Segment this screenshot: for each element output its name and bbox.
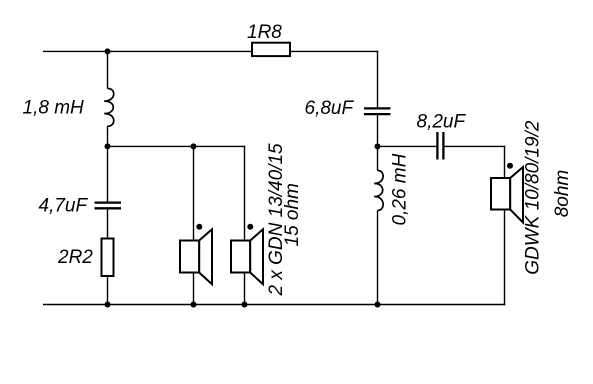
svg-text:0,26 mH: 0,26 mH: [390, 153, 411, 225]
speaker GDWK polarity dot: [507, 163, 513, 169]
wire from capacitor 6,8uF down to node at y=146.4: [377, 114, 379, 170]
speaker GDN #2 magnet box: [231, 241, 250, 273]
capacitor 8,2uF plates: [437, 132, 443, 160]
junction dot at 377.5,304.5: [375, 302, 381, 308]
junction dot at 193.5,146.4: [191, 143, 197, 149]
speaker GDN #1 cone: [199, 229, 212, 284]
wire from inductor 1,8 mH down to node 107.5,146.4: [107, 126, 109, 202]
svg-text:6,8uF: 6,8uF: [305, 98, 355, 119]
resistor 2R2 body: [102, 239, 114, 277]
wire top input from left to resistor 1R8: [43, 50, 252, 52]
junction dot at 107.5,304.5: [105, 302, 111, 308]
junction dot at 193.5,304.5: [191, 302, 197, 308]
capacitor 4,7uF plates: [95, 203, 122, 209]
speaker GDN #2 polarity dot: [247, 224, 253, 230]
wire bottom return from left to bottom-right corner: [43, 304, 505, 306]
wire vertical from top node down to inductor 1,8 mH: [107, 51, 109, 88]
svg-text:15 ohm: 15 ohm: [282, 183, 303, 246]
speaker GDN #1 magnet box: [180, 241, 199, 273]
wire mid from node 377.5,146.4 to capacitor 8,2uF: [378, 145, 437, 147]
wire from capacitor 4,7uF to resistor 2R2: [107, 208, 109, 238]
node junction dot at 377.5,146.4: [375, 143, 381, 149]
svg-text:GDWK 10/80/19/2: GDWK 10/80/19/2: [523, 120, 544, 275]
inductor 0,26 mH coil: [374, 170, 383, 210]
junction dot at 107.5,51.4: [105, 48, 111, 54]
svg-text:2R2: 2R2: [57, 247, 93, 268]
wire from capacitor 8,2uF to right corner: [445, 145, 506, 147]
wire from speaker GDN #1 down to bottom wire: [193, 273, 195, 305]
wire vertical down to tweeter: [504, 146, 506, 178]
junction dot at 107.5,146.4: [105, 143, 111, 149]
wire from resistor 2R2 down to bottom wire: [107, 276, 109, 305]
wire from speaker GDN #2 down to bottom wire: [244, 273, 246, 305]
wire mid-left from node 107.5,146.4 to corner 245,146.4: [108, 145, 246, 147]
svg-text:8ohm: 8ohm: [552, 170, 573, 218]
wire from inductor 0,26 mH to bottom wire: [377, 210, 379, 304]
wire from resistor 1R8 to top-right corner: [290, 50, 378, 52]
wire from tweeter down to bottom right corner: [504, 210, 506, 306]
junction dot at 244.5,304.5: [242, 302, 248, 308]
speaker GDWK cone: [510, 167, 523, 223]
speaker GDN #1 polarity dot: [196, 224, 202, 230]
wire vertical down from corner to capacitor 6,8uF: [377, 51, 379, 108]
speaker GDWK magnet box: [491, 178, 510, 210]
svg-text:1,8 mH: 1,8 mH: [23, 98, 85, 119]
svg-text:1R8: 1R8: [247, 22, 282, 43]
capacitor 6,8uF plates: [364, 108, 391, 114]
resistor 1R8 body: [252, 43, 290, 56]
wire vertical down to speaker GDN #2: [244, 146, 246, 241]
wire vertical down to speaker GDN #1: [193, 146, 195, 240]
speaker GDN #2 cone: [250, 229, 263, 284]
inductor 1,8 mH coil: [104, 88, 114, 126]
svg-text:8,2uF: 8,2uF: [417, 112, 467, 133]
svg-text:4,7uF: 4,7uF: [39, 196, 89, 217]
